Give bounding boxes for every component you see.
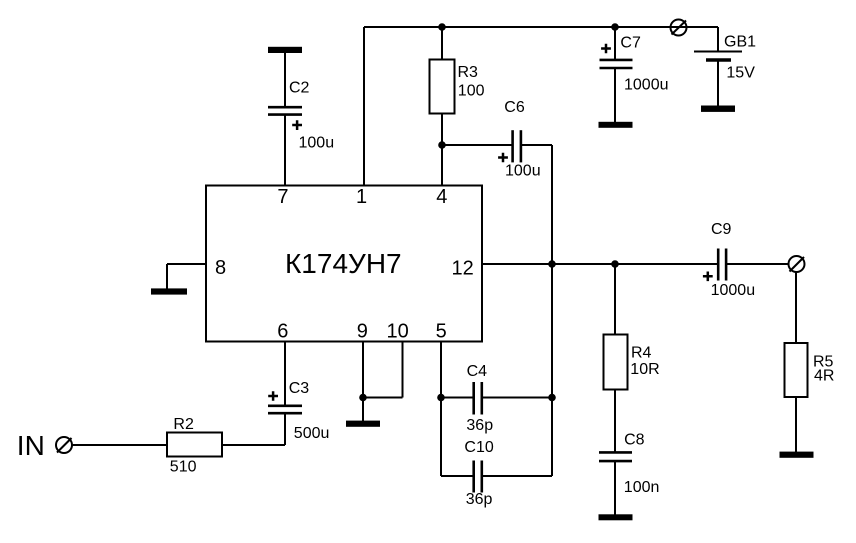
svg-text:К174УН7: К174УН7 bbox=[285, 248, 402, 279]
svg-text:100u: 100u bbox=[299, 135, 335, 152]
svg-text:36p: 36p bbox=[466, 491, 493, 508]
svg-text:9: 9 bbox=[357, 321, 368, 343]
svg-text:7: 7 bbox=[277, 186, 288, 208]
svg-text:C2: C2 bbox=[289, 80, 310, 97]
svg-text:100: 100 bbox=[458, 83, 485, 100]
svg-text:15V: 15V bbox=[726, 65, 755, 82]
svg-text:500u: 500u bbox=[294, 425, 330, 442]
svg-text:1000u: 1000u bbox=[624, 77, 669, 94]
svg-text:1: 1 bbox=[356, 186, 367, 208]
svg-text:100u: 100u bbox=[505, 163, 541, 180]
svg-text:IN: IN bbox=[17, 430, 45, 461]
svg-text:C10: C10 bbox=[464, 439, 493, 456]
svg-text:R2: R2 bbox=[173, 416, 194, 433]
svg-text:C8: C8 bbox=[624, 431, 645, 448]
svg-text:10R: 10R bbox=[630, 361, 659, 378]
svg-text:8: 8 bbox=[215, 257, 226, 279]
svg-text:510: 510 bbox=[170, 459, 197, 476]
svg-text:C9: C9 bbox=[711, 221, 732, 238]
svg-text:5: 5 bbox=[436, 321, 447, 343]
svg-text:4R: 4R bbox=[814, 367, 834, 384]
svg-text:12: 12 bbox=[452, 258, 474, 280]
svg-text:C7: C7 bbox=[620, 34, 641, 51]
svg-text:10: 10 bbox=[387, 321, 409, 343]
svg-text:GB1: GB1 bbox=[724, 33, 756, 50]
svg-text:R4: R4 bbox=[631, 345, 652, 362]
svg-text:100n: 100n bbox=[624, 479, 660, 496]
svg-text:C3: C3 bbox=[289, 380, 310, 397]
svg-text:C6: C6 bbox=[504, 99, 525, 116]
svg-text:6: 6 bbox=[277, 321, 288, 343]
svg-text:1000u: 1000u bbox=[711, 282, 756, 299]
svg-text:36p: 36p bbox=[466, 417, 493, 434]
svg-text:4: 4 bbox=[436, 186, 447, 208]
svg-text:R3: R3 bbox=[458, 64, 479, 81]
svg-text:C4: C4 bbox=[467, 363, 488, 380]
